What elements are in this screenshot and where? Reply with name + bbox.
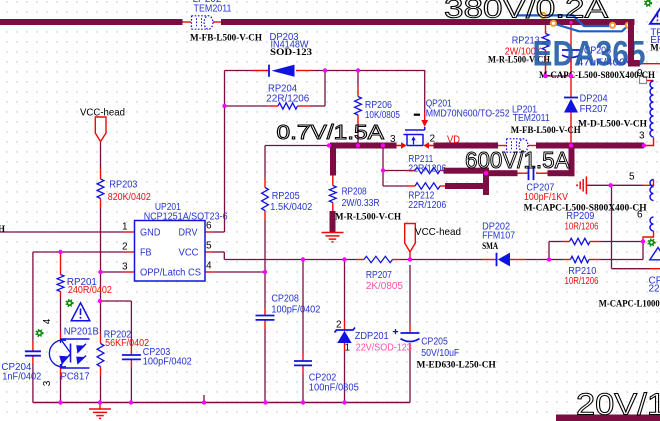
svg-text:56KF/0402: 56KF/0402 — [105, 338, 149, 349]
svg-text:22R/1206: 22R/1206 — [408, 200, 446, 211]
svg-text:H: H — [0, 224, 5, 234]
svg-text:1nF/0402: 1nF/0402 — [2, 372, 41, 383]
svg-text:CP206: CP206 — [584, 46, 611, 57]
svg-text:10R/1206: 10R/1206 — [565, 222, 599, 233]
svg-text:100pF/1KV: 100pF/1KV — [524, 192, 568, 203]
svg-text:VCC-head: VCC-head — [80, 107, 125, 119]
svg-text:RP203: RP203 — [109, 180, 137, 191]
svg-text:100pF/0402: 100pF/0402 — [271, 305, 320, 316]
svg-text:GND: GND — [140, 228, 161, 239]
svg-text:5: 5 — [206, 241, 212, 252]
svg-text:M-R-L500-V-CH: M-R-L500-V-CH — [335, 212, 401, 222]
svg-text:100nF/0805: 100nF/0805 — [309, 383, 359, 394]
svg-text:6: 6 — [637, 210, 643, 221]
svg-text:20V/1: 20V/1 — [576, 387, 660, 421]
svg-text:5: 5 — [629, 172, 635, 183]
svg-text:CP208: CP208 — [271, 294, 299, 305]
svg-text:3: 3 — [42, 380, 53, 386]
svg-text:100pF/0402: 100pF/0402 — [143, 357, 192, 368]
svg-text:TEM2011: TEM2011 — [513, 113, 550, 124]
svg-text:M-CAPC-L500-S800X400-CH: M-CAPC-L500-S800X400-CH — [539, 70, 655, 80]
svg-text:NP201B: NP201B — [64, 327, 99, 338]
svg-text:M-FB-L500-V-CH: M-FB-L500-V-CH — [511, 125, 581, 135]
svg-text:0.7V/1.5A: 0.7V/1.5A — [277, 122, 385, 144]
svg-text:VCC-head: VCC-head — [415, 226, 461, 238]
svg-text:NCP1251A/SOT23-6: NCP1251A/SOT23-6 — [144, 212, 228, 223]
svg-text:MMD70N600/TO-252: MMD70N600/TO-252 — [426, 109, 510, 120]
svg-text:FR207: FR207 — [580, 104, 608, 115]
svg-text:2: 2 — [336, 320, 342, 331]
svg-text:47uF/400V: 47uF/400V — [577, 58, 633, 69]
svg-text:M-D-L500-V-CH: M-D-L500-V-CH — [578, 119, 647, 129]
svg-text:M-: M- — [650, 43, 660, 53]
svg-text:M-CAPC-L1000: M-CAPC-L1000 — [599, 299, 660, 309]
svg-text:380V/0.2A: 380V/0.2A — [444, 0, 608, 24]
svg-text:RP207: RP207 — [366, 270, 392, 281]
svg-text:RP205: RP205 — [272, 191, 300, 202]
svg-text:22V/SOD-123: 22V/SOD-123 — [356, 343, 412, 354]
svg-text:TEM2011: TEM2011 — [194, 4, 232, 15]
svg-text:3: 3 — [639, 131, 645, 142]
svg-text:M-CAPC-L500-S800X400-CH: M-CAPC-L500-S800X400-CH — [524, 203, 647, 213]
svg-text:2K/0805: 2K/0805 — [366, 281, 403, 292]
svg-text:FFM107: FFM107 — [482, 231, 515, 242]
svg-text:CP205: CP205 — [421, 337, 448, 348]
svg-text:220u: 220u — [649, 284, 660, 295]
svg-text:OPP/Latch CS: OPP/Latch CS — [140, 268, 201, 279]
svg-text:2W/0.33R: 2W/0.33R — [342, 198, 380, 209]
svg-text:M-ED630-L250-CH: M-ED630-L250-CH — [417, 360, 496, 370]
svg-text:2: 2 — [122, 242, 128, 253]
svg-text:M-FB-L500-V-CH: M-FB-L500-V-CH — [190, 33, 262, 43]
svg-text:1: 1 — [345, 343, 351, 354]
svg-text:4: 4 — [206, 261, 212, 272]
svg-text:DP204: DP204 — [580, 94, 608, 105]
svg-text:VD: VD — [447, 134, 460, 146]
svg-text:10R/1206: 10R/1206 — [565, 276, 599, 287]
svg-text:1: 1 — [122, 222, 128, 233]
svg-text:600V/1.5A: 600V/1.5A — [465, 147, 570, 173]
svg-text:1.5K/0402: 1.5K/0402 — [270, 202, 312, 213]
svg-text:2: 2 — [430, 134, 436, 145]
svg-text:820K/0402: 820K/0402 — [108, 192, 151, 203]
svg-text:6: 6 — [206, 221, 212, 232]
svg-text:50V/10uF: 50V/10uF — [421, 348, 459, 359]
svg-text:SMA: SMA — [482, 241, 498, 251]
svg-text:ZDP201: ZDP201 — [355, 331, 389, 342]
svg-text:VCC: VCC — [179, 248, 199, 259]
svg-text:FB: FB — [140, 248, 152, 259]
svg-text:240R/0402: 240R/0402 — [68, 285, 112, 296]
svg-text:RP208: RP208 — [342, 187, 367, 198]
svg-text:10K/0805: 10K/0805 — [365, 110, 400, 121]
svg-text:22R/1206: 22R/1206 — [266, 94, 309, 105]
svg-text:PC817: PC817 — [61, 372, 90, 383]
svg-text:RP209: RP209 — [566, 211, 594, 222]
svg-text:3: 3 — [390, 134, 396, 145]
svg-text:DRV: DRV — [179, 228, 198, 239]
svg-text:3: 3 — [122, 262, 128, 273]
svg-text:22R/1206: 22R/1206 — [408, 164, 446, 175]
svg-text:LP202: LP202 — [193, 0, 222, 5]
svg-text:4: 4 — [42, 318, 53, 324]
svg-text:SOD-123: SOD-123 — [270, 47, 313, 57]
